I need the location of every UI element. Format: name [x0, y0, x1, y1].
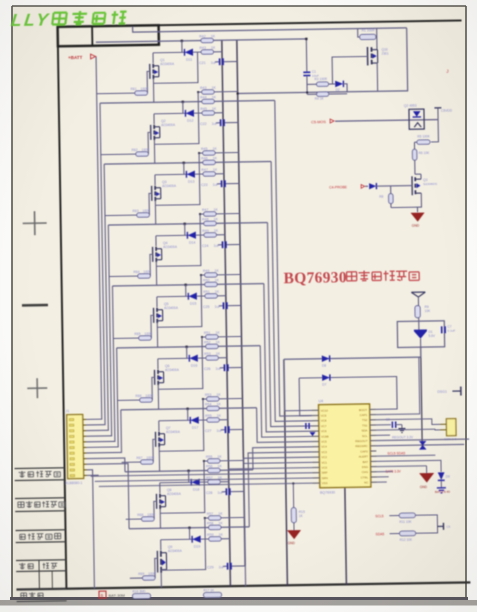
- resistor R3: [307, 77, 335, 87]
- wire diode branch 7: [159, 409, 207, 421]
- resistor R51: [203, 290, 226, 299]
- wire cell tap 6 to connector: [85, 348, 118, 447]
- capacitor C23: [201, 180, 239, 187]
- net label +BATT: [68, 54, 96, 60]
- capacitor C8 sense: [306, 423, 316, 436]
- resistor R67 gate: [122, 456, 155, 465]
- resistor R44: [200, 95, 217, 104]
- resistor R51: [204, 331, 221, 340]
- resistor R47: [202, 208, 219, 217]
- wire cell tap 3: [104, 161, 271, 164]
- resistor R6: [412, 142, 430, 174]
- resistor R42: [199, 34, 216, 43]
- transistor Q5: [153, 296, 179, 347]
- resistor R12 SDA pullup: [376, 531, 437, 543]
- wire reg to rails: [284, 357, 421, 359]
- diode D11: [184, 49, 193, 62]
- wire gate 8: [154, 501, 157, 519]
- wire cell tap 9 to U1 pin 9: [248, 452, 313, 527]
- node tap2 junction: [182, 101, 184, 103]
- resistor R48: [202, 217, 219, 226]
- wire SRN sense: [95, 478, 313, 481]
- power port VCC: [411, 292, 425, 306]
- capacitor C26: [204, 364, 242, 371]
- wire tap1 to U1 pin 1: [284, 359, 312, 411]
- registration mark minus: [22, 304, 48, 307]
- node tap3 junction: [183, 162, 185, 164]
- capacitor C29: [207, 563, 245, 570]
- wire zener down: [421, 347, 423, 446]
- wire row-a 7: [202, 397, 243, 400]
- capacitor C9: [376, 418, 402, 429]
- wire gate 9: [155, 558, 158, 578]
- wire gate 7: [153, 439, 156, 462]
- diode D14: [187, 232, 196, 245]
- rail net C-mid: [222, 40, 231, 586]
- node tap5 junction: [184, 284, 186, 286]
- wire SCL row: [376, 451, 435, 456]
- U1 pins left: [312, 408, 330, 485]
- wire row-a 5: [200, 273, 241, 276]
- wire cell tap 5 to connector: [84, 286, 115, 442]
- wire gate 1: [147, 71, 150, 93]
- wire row-a 9: [204, 516, 245, 519]
- terminal pullup: [437, 523, 450, 530]
- wire source loop 6: [157, 337, 202, 389]
- net label DSG-PROBE: [329, 185, 365, 190]
- diode D15: [188, 293, 197, 306]
- wire TS1 connector: [376, 419, 440, 426]
- capacitor C1: [303, 39, 320, 95]
- wire cell tap 1 to connector: [81, 56, 102, 419]
- resistor R58: [207, 521, 224, 530]
- wire gate 5: [151, 315, 154, 338]
- resistor R61 gate: [97, 87, 150, 96]
- wire cell tap 6 to U1 pin 6: [260, 345, 312, 437]
- wire cell tap 8: [125, 470, 253, 472]
- stub CHG: [377, 471, 393, 473]
- resistor R43: [199, 46, 222, 55]
- diode D13: [186, 171, 195, 184]
- resistor R17: [203, 588, 221, 597]
- capacitor C27: [205, 426, 243, 433]
- wire row-a 3: [198, 151, 239, 154]
- resistor R63 gate: [105, 209, 151, 218]
- node tap7 junction: [186, 408, 188, 410]
- wire source loop 7: [158, 399, 203, 451]
- wire cell tap 7 to connector: [86, 410, 121, 453]
- resistor R4: [307, 92, 347, 101]
- resistor R57: [207, 512, 224, 521]
- resistor R43: [200, 86, 217, 95]
- wire diode branch 5: [157, 285, 205, 297]
- wire SDA connector: [376, 429, 440, 431]
- resistor R56: [206, 464, 223, 473]
- resistor R49: [202, 229, 225, 238]
- resistor R62 gate: [101, 148, 150, 157]
- wire boot feed: [420, 347, 422, 357]
- wire REGSRC long: [376, 440, 464, 450]
- wire cell tap 2 to U1 pin 2: [275, 100, 312, 416]
- wire source loop 1: [153, 52, 198, 83]
- wire gate 4: [150, 254, 153, 276]
- wire diode branch 3: [155, 163, 203, 175]
- capacitor C24: [202, 241, 240, 248]
- wire diode branch 6: [158, 347, 206, 359]
- wire B+ loop: [237, 28, 408, 94]
- wire batt feed top: [133, 22, 407, 32]
- stub SCLpin: [376, 434, 390, 436]
- diode D12: [185, 110, 194, 123]
- wire gate 2: [148, 132, 151, 154]
- node loop junction: [306, 91, 308, 93]
- node tap6 junction: [185, 346, 187, 348]
- wire VC0 tie: [229, 468, 313, 469]
- transistor Q8: [156, 482, 182, 528]
- wire cell tap 9: [129, 527, 249, 529]
- wire connector pin11 stub: [87, 474, 98, 476]
- resistor R53: [205, 393, 222, 402]
- diode D8: [322, 355, 330, 367]
- wire cell tap 7: [121, 408, 257, 410]
- transistor Q3: [151, 174, 177, 224]
- node tap4 junction: [183, 223, 185, 225]
- transistor Q9: [157, 539, 183, 587]
- wire pullup common: [436, 515, 437, 533]
- wire CAP1 up: [375, 357, 420, 414]
- resistor R49: [203, 269, 220, 278]
- top-left revision box: [58, 25, 159, 46]
- registration mark plus2: [27, 378, 47, 398]
- resistor R45: [200, 107, 223, 116]
- capacitor C7: [442, 325, 456, 334]
- watermark CJK 电子科技: [52, 10, 127, 25]
- capacitor C28: [206, 488, 244, 495]
- wire source loop 9: [160, 518, 205, 570]
- node tap9 junction: [188, 527, 190, 529]
- node top feed junction: [305, 38, 307, 40]
- wire cell tap 5: [112, 284, 263, 286]
- net label DSG: [437, 387, 461, 396]
- resistor R11 SCL pullup: [375, 513, 436, 525]
- wire cell tap 1: [96, 39, 306, 42]
- resistor R50: [203, 278, 220, 287]
- wire source loop 2: [154, 92, 199, 144]
- resistor R5: [414, 134, 430, 144]
- rail net B-mid: [237, 40, 245, 566]
- wire diode branch 1: [153, 41, 201, 53]
- diode D3: [365, 182, 412, 189]
- rail chip bottom to ground rail: [345, 487, 347, 584]
- net marker B-: [99, 591, 106, 598]
- wire diode branch 2: [154, 102, 202, 114]
- ground GND2: [377, 466, 435, 490]
- photo vignette: [0, 0, 1, 1]
- wire cell tap 10 to U1 pin 10: [244, 457, 315, 586]
- wire cap2 vertical: [299, 378, 312, 416]
- stub CTRL: [377, 476, 389, 478]
- resistor R1: [358, 28, 377, 39]
- wire cell tap 5 to U1 pin 5: [264, 283, 312, 432]
- wire cell tap 9 to connector: [87, 464, 129, 530]
- resistor R53: [204, 352, 227, 361]
- rail to bottom right: [284, 359, 288, 585]
- wire source loop 5: [157, 275, 202, 327]
- transistor Q7: [155, 420, 181, 471]
- wire cell tap 4: [108, 223, 267, 226]
- stub NC: [377, 481, 387, 483]
- wire source loop 3: [155, 153, 200, 205]
- wire source loop 4: [156, 214, 201, 266]
- wire cell tap 4 to connector: [83, 225, 111, 436]
- net label C-VDD: [434, 108, 452, 120]
- wire REGOUT long: [376, 434, 469, 440]
- resistor R15: [291, 482, 305, 522]
- transistor Q3 Si2306: [412, 174, 437, 200]
- wire q2 to R5: [431, 120, 439, 142]
- transistor Q6: [154, 358, 180, 409]
- resistor R65 gate: [113, 332, 153, 341]
- registration mark plus1: [22, 211, 46, 235]
- resistor R47: [201, 168, 224, 177]
- transistor Q4: [152, 235, 178, 285]
- wire cell tap 7 to U1 pin 7: [257, 407, 313, 443]
- zener D1: [414, 330, 436, 347]
- wire cap1 feed: [299, 377, 397, 411]
- wire connector pin10 to bottom rail: [87, 470, 94, 589]
- red title CJK: [347, 270, 420, 282]
- wire gate Q10: [332, 56, 368, 84]
- resistor R69 gate: [130, 572, 157, 581]
- wire row-a 4: [199, 212, 240, 215]
- wire VC1 tie: [243, 462, 312, 463]
- wire cell tap 4 to U1 pin 4: [267, 222, 311, 427]
- wire cell tap 6: [117, 346, 261, 348]
- resistor R66 gate: [117, 394, 154, 403]
- wire source loop 8: [159, 461, 204, 513]
- diode D7: [322, 374, 330, 386]
- U1 pins right: [355, 408, 377, 485]
- wire cell tap 2: [100, 100, 275, 103]
- resistor R16: [132, 589, 150, 598]
- diode D2: [335, 81, 347, 92]
- wire diode branch 9: [160, 528, 208, 540]
- wire row-a 8: [203, 459, 244, 462]
- resistor R55: [205, 414, 228, 423]
- capacitor C25: [203, 302, 241, 309]
- capacitor C21: [199, 58, 237, 65]
- diode D9: [435, 460, 450, 488]
- diode D18: [191, 479, 200, 492]
- wire ALERT row: [376, 459, 435, 462]
- ground GND1: [410, 200, 424, 228]
- wire cell tap 3 to U1 pin 3: [271, 161, 312, 421]
- wire diode branch 4: [156, 224, 204, 236]
- resistor R54: [205, 402, 222, 411]
- capacitor C22: [200, 119, 238, 126]
- wire SRP sense: [91, 473, 313, 476]
- connector CON2: [440, 419, 457, 442]
- wire zener box: [397, 321, 444, 348]
- title block text row3: [20, 533, 61, 540]
- resistor R68 gate: [126, 513, 156, 522]
- title block text row2: [18, 501, 65, 508]
- op-amp U1 BQ76930: [318, 398, 370, 494]
- ground GND3: [287, 523, 301, 546]
- wire VSS: [99, 483, 313, 486]
- resistor R46: [201, 156, 218, 165]
- resistor R55: [206, 455, 223, 464]
- wire diode branch 8: [160, 471, 208, 483]
- net label CHG-MOS: [311, 119, 334, 124]
- connector J1: [64, 409, 87, 485]
- wire cell tap 8 to connector: [87, 458, 125, 472]
- wire BOOT up: [376, 408, 397, 410]
- node tap1 junction: [181, 40, 183, 42]
- ground small: [398, 425, 405, 433]
- wire cell tap 8 to U1 pin 8: [253, 447, 313, 470]
- transistor Q2: [150, 113, 176, 163]
- resistor R64 gate: [109, 270, 152, 279]
- resistor R8: [379, 185, 421, 207]
- diode D16: [189, 355, 198, 368]
- transistor Q1: [150, 52, 176, 102]
- title block rows: [15, 468, 67, 602]
- wire row-a 2: [197, 90, 238, 93]
- resistor R52: [204, 340, 221, 349]
- watermark LLY: [10, 9, 52, 30]
- wire gate 3: [149, 193, 152, 215]
- title block text row4 date/sign: [19, 562, 57, 569]
- wire gate 6: [152, 377, 155, 400]
- diode D17: [190, 417, 199, 430]
- resistor R7: [415, 305, 432, 331]
- diode D19: [192, 536, 201, 549]
- ground agnd D9: [437, 488, 446, 493]
- title block text row1: [19, 470, 61, 477]
- transistor Q10 pmos: [367, 28, 389, 91]
- wire row-a 6: [201, 335, 242, 338]
- resistor R57: [206, 476, 229, 485]
- wire cell tap 2 to connector: [81, 103, 105, 425]
- title block text row5 format: [21, 592, 43, 598]
- wire cell tap 3 to connector: [82, 164, 108, 431]
- node tap8 junction: [187, 470, 189, 472]
- resistor R59: [207, 533, 230, 542]
- transistor Q2 dual: [335, 103, 438, 130]
- resistor R45: [201, 147, 218, 156]
